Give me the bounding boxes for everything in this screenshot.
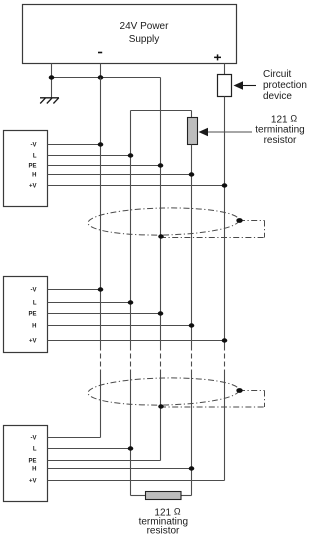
device 2 wires (48, 290, 225, 341)
wire: minus bus horizontal (52, 77, 161, 79)
rail: PE bus vertical (160, 78, 162, 346)
svg-text:Circuit: Circuit (263, 69, 292, 80)
plus terminal label (214, 57, 221, 59)
svg-text:-V: -V (31, 143, 37, 149)
minus terminal label (98, 52, 102, 54)
wire: ground drop from supply (51, 64, 53, 98)
shield ellipse 2 (88, 377, 239, 407)
device 1 pin labels (28, 143, 36, 190)
shield 2 tail bottom (160, 406, 265, 408)
shield 1 tail top (239, 220, 265, 222)
svg-text:device: device (263, 91, 292, 102)
shield 1 tail bottom (160, 237, 265, 239)
shield 1 tail end cap (264, 221, 266, 238)
shield 2 tail end cap (264, 391, 266, 408)
rail: -V bus vertical (100, 78, 102, 346)
wire: L rail into bottom resistor (131, 495, 146, 497)
wire: plus terminal drop (224, 64, 226, 75)
device 3 pin labels (28, 436, 36, 485)
svg-text:PE: PE (28, 312, 36, 318)
svg-text:Supply: Supply (129, 34, 160, 45)
rail: L bus vertical (130, 111, 132, 346)
terminating resistor R1 (121 ohm, vertical) (188, 118, 198, 145)
svg-text:-V: -V (31, 288, 37, 294)
device box 3 (4, 426, 48, 502)
shield 1 junction right (236, 218, 242, 223)
wire: H rail top stub into resistor (191, 111, 193, 118)
shield 2 tail top (239, 390, 265, 392)
arrow to circuit protection device (241, 85, 256, 87)
shield 2 junction right (236, 388, 242, 393)
circuit protection device (218, 75, 232, 97)
device 1 wires (48, 145, 225, 186)
svg-text:PE: PE (28, 459, 36, 465)
svg-text:L: L (33, 154, 37, 160)
svg-text:+V: +V (29, 184, 37, 190)
svg-text:H: H (32, 324, 36, 330)
svg-text:H: H (32, 173, 36, 179)
ground symbol (40, 98, 59, 104)
terminating resistor R2 (121 ohm, horizontal) (146, 492, 182, 500)
wire: H rail into bottom resistor (181, 495, 192, 497)
power supply box (23, 5, 237, 64)
wire: minus terminal drop (100, 64, 102, 78)
arrow to terminating resistor R1 (206, 131, 252, 133)
svg-text:24V Power: 24V Power (120, 21, 170, 32)
svg-text:L: L (33, 301, 37, 307)
wire: L jog horizontal at top (131, 110, 192, 112)
shield 1 junction PE (158, 234, 164, 238)
svg-text:+V: +V (29, 339, 37, 345)
device 3 wires (48, 438, 225, 481)
svg-text:resistor: resistor (264, 135, 297, 146)
device 2 pin labels (28, 288, 36, 345)
device 3 junctions (L and H only) (128, 446, 134, 450)
shield 2 junction PE (158, 404, 164, 408)
rail: +V bus vertical (224, 97, 226, 346)
svg-text:PE: PE (28, 164, 36, 170)
svg-text:L: L (33, 447, 37, 453)
svg-text:H: H (32, 467, 36, 473)
device box 1 (4, 131, 48, 207)
device box 2 (4, 277, 48, 353)
device 1 junctions (98, 142, 228, 187)
svg-text:-V: -V (31, 436, 37, 442)
shield ellipse 1 (88, 207, 239, 237)
svg-text:protection: protection (263, 80, 307, 91)
rail: H bus vertical (191, 145, 193, 346)
junction: minus terminal node (98, 75, 104, 79)
device 2 junctions (98, 287, 228, 342)
svg-text:+V: +V (29, 479, 37, 485)
svg-text:resistor: resistor (147, 525, 180, 536)
junction: ground node (49, 75, 55, 79)
